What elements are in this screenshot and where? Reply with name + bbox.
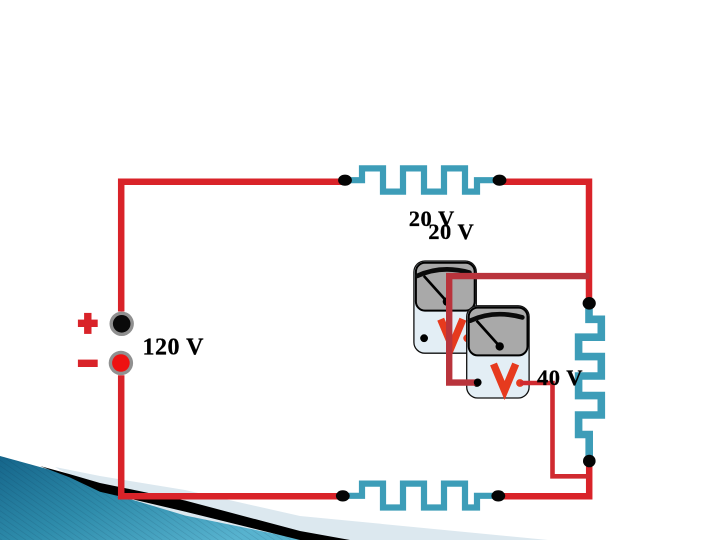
svg-text:120 V: 120 V: [143, 335, 205, 361]
svg-text:20 V: 20 V: [428, 219, 474, 244]
svg-text:40 V: 40 V: [537, 365, 583, 390]
